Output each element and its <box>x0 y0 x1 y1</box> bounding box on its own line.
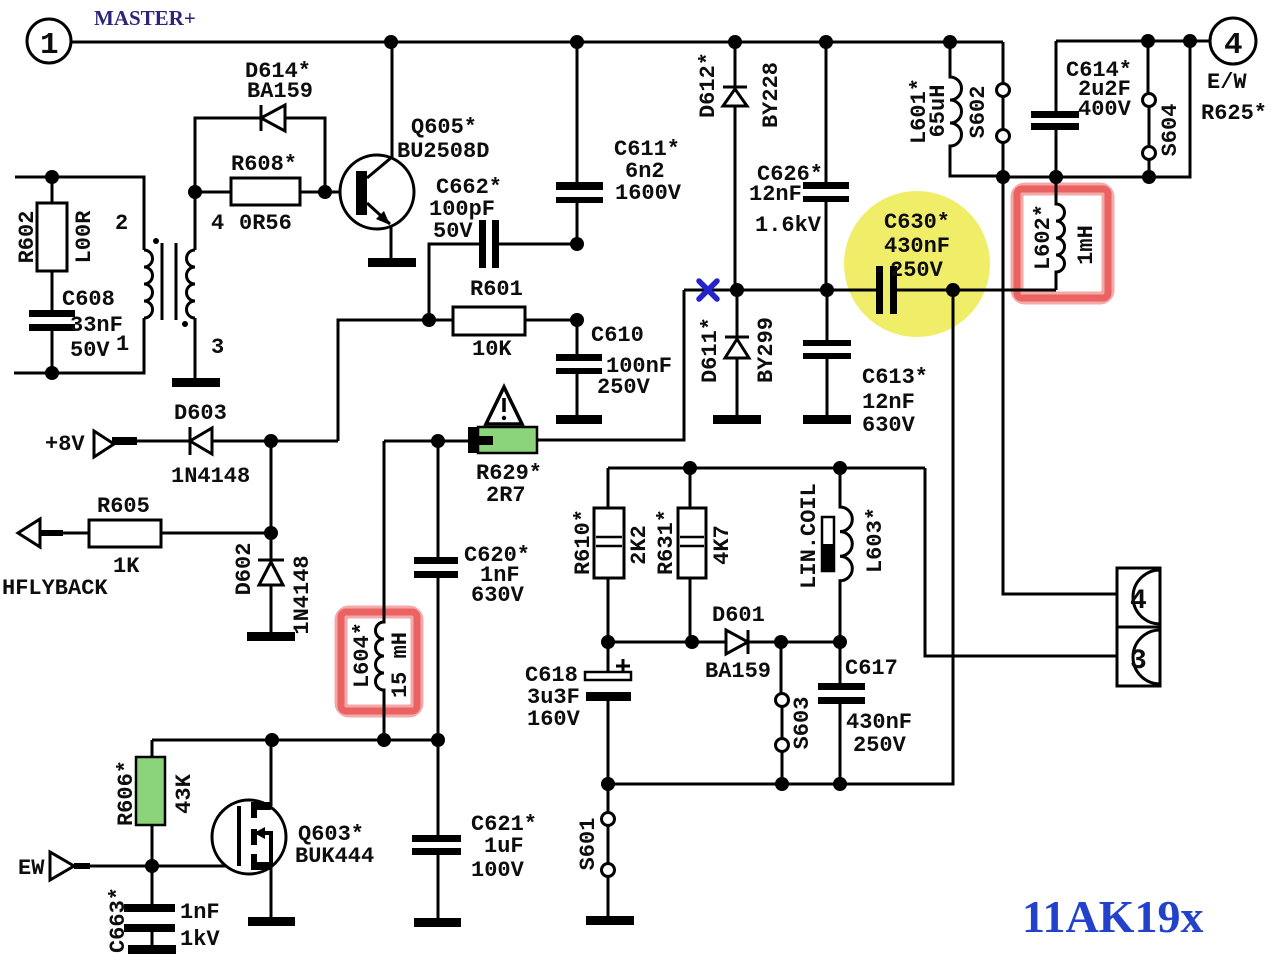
node L604 bottom <box>377 733 391 747</box>
node R601 right <box>570 313 584 327</box>
svg-text:C617: C617 <box>845 656 898 681</box>
wire C608 bottom to transformer pin1 <box>14 318 144 373</box>
node L603 top <box>833 461 847 475</box>
connector pins 4 and 3 <box>1117 568 1160 686</box>
node E/W loop top <box>1183 34 1197 48</box>
svg-text:R606*: R606* <box>114 760 139 826</box>
svg-text:50V: 50V <box>433 219 473 244</box>
svg-text:BUK444: BUK444 <box>295 844 374 869</box>
svg-text:1: 1 <box>40 28 59 63</box>
transformer T601 primary winding <box>144 250 153 318</box>
svg-text:E/W: E/W <box>1207 70 1247 95</box>
node C608 bottom <box>45 366 59 380</box>
terminal 4 <box>1210 18 1256 64</box>
svg-text:1.6kV: 1.6kV <box>755 213 822 238</box>
svg-text:C613*: C613* <box>862 365 928 390</box>
resistor R606 <box>151 740 154 866</box>
node C620 bottom <box>431 733 445 747</box>
resistor R602 <box>51 177 54 203</box>
svg-text:1nF: 1nF <box>180 900 220 925</box>
input EW <box>50 852 74 880</box>
capacitor C613 <box>826 290 829 415</box>
svg-text:C608: C608 <box>62 287 115 312</box>
svg-text:1N4148: 1N4148 <box>290 555 315 634</box>
warning triangle <box>486 387 522 424</box>
wire lin row to connector pin 3 <box>925 468 1117 656</box>
node C662 right <box>570 237 584 251</box>
node Q603 drain <box>265 733 279 747</box>
svg-text:1N4148: 1N4148 <box>171 464 250 489</box>
ground S601 <box>586 916 634 925</box>
inductor L603 LIN.COIL <box>840 468 852 642</box>
svg-text:R602: R602 <box>15 211 40 264</box>
capacitor C610 <box>576 320 579 415</box>
wire gate row y740 <box>152 739 438 742</box>
wire to R629 <box>438 440 468 443</box>
transformer core <box>162 243 176 320</box>
svg-text:400V: 400V <box>1078 97 1132 122</box>
svg-text:BY299: BY299 <box>754 317 779 383</box>
wire lin node row y468 <box>608 467 925 470</box>
polarity dot bottom <box>182 321 188 327</box>
jumper S604 <box>1148 41 1149 177</box>
svg-text:1mH: 1mH <box>1074 225 1099 265</box>
capacitor C626 <box>825 42 828 290</box>
node S603 top <box>774 635 788 649</box>
transistor Q603 <box>212 800 286 874</box>
ground Q605 emitter <box>368 258 416 267</box>
node R608 left <box>188 185 202 199</box>
svg-text:4: 4 <box>1224 28 1243 63</box>
node L603 bottom <box>833 635 847 649</box>
wire D601 row y642 <box>608 641 840 644</box>
inductor L604 <box>376 441 385 740</box>
svg-text:D611*: D611* <box>698 317 723 383</box>
svg-text:L604*: L604* <box>350 622 375 688</box>
wire X node row <box>684 289 1056 292</box>
node S603 bottom <box>775 777 789 791</box>
svg-text:BA159: BA159 <box>247 79 313 104</box>
node D612 on rail <box>728 35 742 49</box>
ground C621 <box>414 918 461 927</box>
svg-text:630V: 630V <box>471 583 525 608</box>
wire R629 net left corner <box>384 440 438 443</box>
wire EW to Q603 gate <box>90 865 239 868</box>
node L601 on rail <box>943 35 957 49</box>
svg-text:1: 1 <box>116 332 129 357</box>
node C613 top <box>820 283 834 297</box>
diode D614 <box>195 118 325 192</box>
svg-text:430nF: 430nF <box>884 234 950 259</box>
svg-text:C610: C610 <box>591 323 644 348</box>
capacitor C614 <box>1055 41 1058 177</box>
svg-text:R601: R601 <box>470 277 523 302</box>
svg-text:2K2: 2K2 <box>627 525 652 565</box>
diode D601 <box>726 630 748 654</box>
jumper S601 <box>607 784 610 916</box>
svg-text:4: 4 <box>211 211 224 236</box>
svg-text:33nF: 33nF <box>70 313 123 338</box>
svg-text:R631*: R631* <box>654 509 679 575</box>
svg-text:D601: D601 <box>712 603 765 628</box>
svg-text:Q605*: Q605* <box>411 115 477 140</box>
node C620 top <box>431 434 445 448</box>
svg-text:D602: D602 <box>232 543 257 596</box>
node Q605 collector on rail <box>384 35 398 49</box>
wire bottom row y784 up to C630 right <box>608 290 953 784</box>
capacitor C611 <box>576 42 579 244</box>
transistor Q605 <box>340 155 414 229</box>
jumper S603 <box>781 642 782 784</box>
svg-text:S602: S602 <box>966 86 991 139</box>
wire top right rail <box>1056 40 1210 43</box>
svg-text:250V: 250V <box>890 258 944 283</box>
node R601 left <box>422 313 436 327</box>
diode D612 <box>723 42 747 290</box>
svg-text:3: 3 <box>1130 646 1147 677</box>
svg-text:EW: EW <box>18 856 45 881</box>
svg-text:S603: S603 <box>790 697 815 750</box>
ground C663 <box>128 945 176 954</box>
diode D602 <box>270 441 273 560</box>
resistor R601 <box>429 319 577 322</box>
jumper S602 <box>1002 42 1005 177</box>
resistor R631 <box>689 468 692 642</box>
capacitor C621 <box>437 740 440 918</box>
highlight box around L604 <box>341 612 417 711</box>
svg-text:160V: 160V <box>527 707 581 732</box>
svg-text:1uF: 1uF <box>484 834 524 859</box>
wire top rail from terminal 1 to S602 corner <box>71 41 1003 44</box>
svg-text:0R56: 0R56 <box>239 211 292 236</box>
inductor L601 <box>950 42 1003 176</box>
wire left stub to transformer pin2 row <box>15 177 144 250</box>
svg-text:1600V: 1600V <box>615 181 682 206</box>
capacitor C663 <box>151 866 154 945</box>
svg-text:S601: S601 <box>576 818 601 871</box>
svg-text:BY228: BY228 <box>759 62 784 128</box>
node S604 top <box>1141 34 1155 48</box>
node D611 top <box>730 283 744 297</box>
svg-text:250V: 250V <box>853 733 907 758</box>
svg-text:R625*: R625* <box>1201 101 1267 126</box>
svg-text:BU2508D: BU2508D <box>397 139 489 164</box>
diode D603 <box>189 427 192 455</box>
resistor R605 <box>18 519 40 547</box>
node L601/S602 bottom <box>996 170 1010 184</box>
polarity dot top <box>153 238 159 244</box>
svg-text:3: 3 <box>211 335 224 360</box>
input +8V <box>94 431 114 457</box>
svg-text:D612*: D612* <box>696 52 721 118</box>
ground Q603 source <box>248 917 295 926</box>
svg-text:LIN.COIL: LIN.COIL <box>797 483 822 589</box>
svg-text:+8V: +8V <box>45 432 85 457</box>
svg-text:L603*: L603* <box>863 507 888 573</box>
ground transformer pin3 <box>172 378 220 387</box>
ground D611 <box>713 415 761 424</box>
node R606 bottom <box>145 859 159 873</box>
node C630 right <box>946 283 960 297</box>
svg-text:R608*: R608* <box>231 152 297 177</box>
resistor R608 <box>195 191 356 194</box>
svg-text:43K: 43K <box>172 773 197 813</box>
svg-text:65uH: 65uH <box>926 85 951 138</box>
inductor L602 <box>1056 178 1065 290</box>
svg-text:15 mH: 15 mH <box>388 632 413 698</box>
capacitor C620 <box>437 441 440 740</box>
capacitor C608 <box>29 310 75 317</box>
svg-text:4K7: 4K7 <box>710 525 735 565</box>
node X marker <box>699 281 717 299</box>
svg-text:4: 4 <box>1130 586 1147 617</box>
highlight box around L602 <box>1017 189 1108 298</box>
node R608 right <box>318 185 332 199</box>
wire +8V node to R601 branch <box>271 440 338 443</box>
node D603 cathode junction <box>264 434 278 448</box>
svg-text:R610*: R610* <box>571 509 596 575</box>
svg-text:L00R: L00R <box>72 210 97 264</box>
wire L601 bottom row <box>1003 42 1190 177</box>
capacitor C618 <box>607 642 610 784</box>
diode D611 <box>725 290 749 415</box>
node C614 bottom <box>1049 170 1063 184</box>
wire long vertical to connector pin 4 <box>1003 177 1117 594</box>
node R631 top <box>683 461 697 475</box>
svg-text:2R7: 2R7 <box>486 483 526 508</box>
svg-text:50V: 50V <box>70 338 110 363</box>
node S601 top <box>601 777 615 791</box>
terminal 1 <box>27 19 71 63</box>
svg-text:430nF: 430nF <box>846 710 912 735</box>
ground C610 <box>556 415 602 424</box>
svg-text:11AK19x: 11AK19x <box>1022 891 1203 942</box>
ground D602 <box>247 632 295 641</box>
wire +8V to D603 <box>137 440 190 443</box>
svg-text:2: 2 <box>115 211 128 236</box>
node C611 on rail <box>570 35 584 49</box>
node R602 top <box>45 170 59 184</box>
node C617 bottom <box>833 777 847 791</box>
svg-text:C663*: C663* <box>106 887 131 953</box>
svg-text:S604: S604 <box>1158 104 1183 157</box>
svg-text:630V: 630V <box>862 413 916 438</box>
svg-text:12nF: 12nF <box>749 182 802 207</box>
svg-text:1kV: 1kV <box>180 927 220 952</box>
svg-text:100V: 100V <box>471 858 525 883</box>
capacitor C617 <box>839 642 842 784</box>
svg-text:C630*: C630* <box>884 210 950 235</box>
svg-text:250V: 250V <box>597 375 651 400</box>
capacitor C662 <box>429 244 577 320</box>
svg-text:L602*: L602* <box>1031 204 1056 270</box>
svg-text:1K: 1K <box>113 554 140 579</box>
wire R601 left down to +8V row <box>338 320 429 441</box>
svg-text:R605: R605 <box>97 494 150 519</box>
wire R629 right up to X node <box>537 290 684 440</box>
capacitor C630 <box>876 266 883 314</box>
node S604 bottom <box>1142 170 1156 184</box>
node C618 top <box>601 635 615 649</box>
svg-text:HFLYBACK: HFLYBACK <box>2 576 108 601</box>
svg-text:10K: 10K <box>472 337 512 362</box>
svg-text:D603: D603 <box>174 401 227 426</box>
resistor R610 <box>607 468 610 642</box>
highlight circle around C630 <box>844 191 990 337</box>
transformer secondary winding <box>187 250 196 318</box>
svg-text:MASTER+: MASTER+ <box>94 6 196 30</box>
node D602 top <box>264 526 278 540</box>
ground C613 <box>803 415 851 424</box>
node R631 bottom <box>685 635 699 649</box>
node C626 on rail <box>819 35 833 49</box>
svg-text:BA159: BA159 <box>705 659 771 684</box>
svg-text:12nF: 12nF <box>862 390 915 415</box>
resistor R629 <box>468 427 478 453</box>
